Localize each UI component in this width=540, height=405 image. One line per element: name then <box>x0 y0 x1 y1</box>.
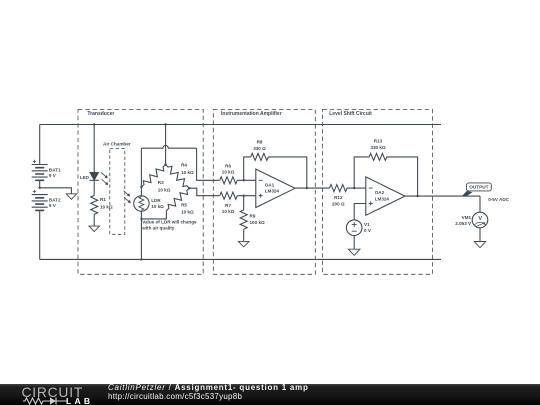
node: OA1 output <box>306 187 308 189</box>
svg-text:10 kΩ: 10 kΩ <box>151 204 164 209</box>
wire: rail down to bridge top <box>165 125 167 165</box>
LED D1 <box>90 173 99 181</box>
label 0-5V ADC <box>488 197 509 202</box>
footer logo CIRCUIT <box>22 385 84 400</box>
footer logo LAB <box>66 396 93 405</box>
svg-text:LDR: LDR <box>151 198 161 203</box>
svg-text:R13: R13 <box>374 138 383 143</box>
op-amp OA2 <box>366 177 405 215</box>
label OA1 LM324 <box>265 183 280 194</box>
wire: output down to voltmeter <box>479 196 481 212</box>
svg-text:R1: R1 <box>100 197 106 202</box>
svg-text:0 V: 0 V <box>364 228 372 233</box>
label Level Shift Circuit <box>329 111 372 117</box>
svg-text:BAT1: BAT1 <box>49 168 61 173</box>
wire: R9 to ground <box>243 229 245 241</box>
svg-text:Level Shift Circuit: Level Shift Circuit <box>329 111 372 117</box>
resistor R5 <box>166 188 189 210</box>
svg-text:Transducer: Transducer <box>87 111 114 117</box>
wire: OA2 feedback up <box>354 157 369 188</box>
svg-text:10 kΩ: 10 kΩ <box>181 170 194 175</box>
node: LDR branch / bottom rail <box>140 258 142 260</box>
resistor R3 <box>141 165 165 187</box>
svg-text:LM324: LM324 <box>375 197 390 202</box>
op-amp OA1 <box>256 169 295 207</box>
dashed box: Level Shift Circuit <box>323 109 433 274</box>
wire: junction to ground <box>40 188 72 194</box>
svg-text:with air quality: with air quality <box>141 226 175 231</box>
footer bar <box>0 384 540 405</box>
svg-text:330 kΩ: 330 kΩ <box>370 145 385 150</box>
svg-text:R5: R5 <box>181 202 187 207</box>
svg-text:10 kΩ: 10 kΩ <box>222 209 235 214</box>
svg-text:BAT2: BAT2 <box>49 198 61 203</box>
label OA2 LM324 <box>375 190 390 201</box>
note: Value of LDR <box>141 220 197 231</box>
footer logo squiggle and diode <box>23 397 67 405</box>
svg-text:OA2: OA2 <box>375 190 385 195</box>
svg-text:10 kΩ: 10 kΩ <box>100 205 113 210</box>
resistor R6 <box>220 177 238 184</box>
label BAT1 9V <box>49 168 61 179</box>
voltmeter VM1 <box>472 212 488 228</box>
dashed box: Instrumentation Amplifier <box>213 109 315 274</box>
node: OA2 inverting input <box>353 187 355 189</box>
wire: R9 tap <box>243 196 245 210</box>
battery BAT1 <box>32 160 48 181</box>
svg-text:10 kΩ: 10 kΩ <box>222 170 235 175</box>
label Transducer <box>87 111 114 117</box>
wire: R13 to OA2 output <box>387 157 418 196</box>
label R9 100k <box>250 214 265 225</box>
wire: bridge right node jog to R7 <box>189 188 219 196</box>
svg-text:100 kΩ: 100 kΩ <box>250 220 265 225</box>
node: OA2 output <box>416 195 418 197</box>
svg-text:OA1: OA1 <box>265 183 275 188</box>
ground (V1) <box>348 249 360 255</box>
ground (R9) <box>238 241 249 247</box>
wire: LED to R1 <box>93 180 95 195</box>
battery BAT2 <box>32 190 48 211</box>
wire: R6 to OA1 inverting input <box>237 179 256 181</box>
node: bridge left (LDR top) <box>140 186 142 188</box>
footer url text <box>108 393 242 401</box>
LDR photoresistor <box>134 196 149 211</box>
resistor R1 <box>91 195 98 214</box>
resistor R7 <box>220 192 238 199</box>
wire: OA1 feedback up <box>244 157 251 180</box>
wire: R12 to OA2 inverting input <box>347 187 366 189</box>
svg-text:R8: R8 <box>257 140 263 145</box>
wire: R8 to OA1 output <box>268 157 307 188</box>
label LED <box>80 175 90 180</box>
svg-text:10 kΩ: 10 kΩ <box>181 210 194 215</box>
svg-text:R4: R4 <box>181 163 187 168</box>
node: top rail / LED branch <box>93 123 95 125</box>
wire: OA1 output to R12 <box>295 187 330 189</box>
label R4 10k <box>181 163 194 175</box>
label R12 200 <box>332 195 345 206</box>
node: OA1 inverting input <box>243 179 245 181</box>
svg-text:0-5V ADC: 0-5V ADC <box>488 197 509 202</box>
ground (R1) <box>89 226 100 232</box>
svg-text:R9: R9 <box>250 214 256 219</box>
svg-text:330 Ω: 330 Ω <box>253 146 266 151</box>
node: battery midpoint junction <box>39 187 41 189</box>
wire: bottom rail <box>40 258 441 260</box>
node: bridge right <box>188 187 190 189</box>
wire: top supply rail <box>40 124 441 126</box>
LDR light arrows <box>124 191 131 204</box>
label V in meter <box>478 216 482 222</box>
voltage source V1 <box>346 220 362 236</box>
label Instrumentation Amplifier <box>221 111 282 117</box>
svg-text:Value of LDR will change: Value of LDR will change <box>142 220 197 225</box>
svg-text:200 Ω: 200 Ω <box>332 202 345 207</box>
dashed box: Transducer <box>78 109 203 274</box>
node: bridge top <box>164 163 166 165</box>
wire: bridge upper output to R6 <box>197 148 220 180</box>
svg-text:R12: R12 <box>334 195 343 200</box>
svg-text:LM324: LM324 <box>265 188 280 193</box>
wire: R7 to OA1 non-inverting input <box>237 195 256 197</box>
svg-text:V1: V1 <box>364 222 370 227</box>
label Air Chamber <box>103 141 131 146</box>
label R13 330k <box>370 138 385 149</box>
LED light arrows <box>101 173 108 186</box>
svg-text:2.053 V: 2.053 V <box>455 221 472 226</box>
ground (battery midpoint) <box>66 194 77 200</box>
svg-text:9 V: 9 V <box>49 203 57 208</box>
svg-text:R6: R6 <box>225 164 231 169</box>
footer title text <box>108 384 309 392</box>
wire: OA2 non-inverting to V1 <box>354 204 366 220</box>
label OUTPUT <box>469 185 488 190</box>
wire: VM1 to ground <box>479 228 481 242</box>
resistor R12 <box>330 185 348 192</box>
ground (VM1) <box>474 242 486 248</box>
node: OA1 non-inverting input <box>243 195 245 197</box>
node: R5/LDR bottom junction <box>140 218 142 220</box>
svg-text:R7: R7 <box>225 203 231 208</box>
label VM1 2.053V <box>455 215 472 226</box>
wire: OA2 output to voltmeter branch <box>405 195 480 197</box>
svg-text:9 V: 9 V <box>49 173 57 178</box>
svg-text:10 kΩ: 10 kΩ <box>158 188 171 193</box>
resistor R13 <box>369 153 387 160</box>
dashed box: Air Chamber <box>110 148 125 234</box>
label R5 10k <box>181 202 194 214</box>
svg-text:VM1: VM1 <box>462 215 472 220</box>
svg-text:LED: LED <box>80 175 90 180</box>
svg-text:R3: R3 <box>158 180 164 185</box>
label R1 10k <box>100 197 113 209</box>
wire: rail to LED <box>93 125 95 173</box>
wire: left vertical to BAT1 <box>39 125 41 165</box>
label BAT2 9V <box>49 198 61 209</box>
resistor R8 <box>251 153 269 160</box>
label R3 10k <box>158 180 171 192</box>
wire: BAT2 to bottom rail <box>39 210 41 259</box>
wire: V1 to ground <box>353 236 355 250</box>
svg-text:OUTPUT: OUTPUT <box>469 185 488 190</box>
label R8 330 <box>253 140 266 151</box>
wire: bridge top link with hop <box>141 145 196 148</box>
output flag OUTPUT <box>462 183 492 197</box>
svg-text:V: V <box>478 216 482 222</box>
wire: LDR to bottom rail <box>140 211 142 259</box>
node: top rail / bridge feed <box>164 123 166 125</box>
svg-text:Instrumentation Amplifier: Instrumentation Amplifier <box>221 111 282 117</box>
svg-text:Air Chamber: Air Chamber <box>103 141 131 146</box>
label R6 10k <box>222 164 235 175</box>
label LDR 10k <box>151 198 164 209</box>
wire: R5 bottom link <box>141 211 166 219</box>
resistor R4 <box>166 165 190 189</box>
label V1 0V <box>364 222 372 233</box>
label R7 10k <box>222 203 235 214</box>
wire: R1 to ground <box>93 214 95 226</box>
wire: BAT1 to junction <box>39 180 41 188</box>
resistor R9 <box>240 210 247 229</box>
wire: left drop to LDR <box>140 148 142 196</box>
